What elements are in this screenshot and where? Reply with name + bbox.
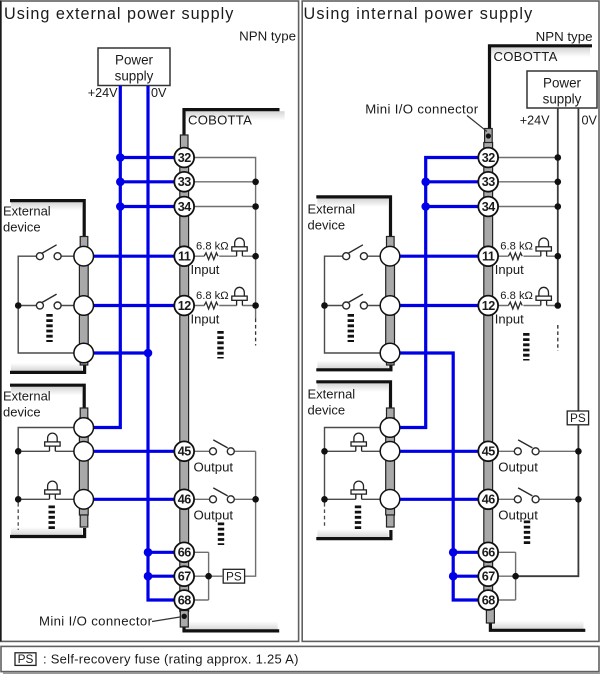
resistor 6.8k row 12 (right) bbox=[508, 302, 522, 309]
terminal 34 (right) bbox=[478, 197, 498, 217]
junction dot +24V/33 bbox=[116, 178, 125, 187]
wire terminal 32 to +24V (right) bbox=[488, 157, 558, 159]
ext2 connector plug bbox=[80, 408, 88, 420]
ext1 pin 3 bbox=[74, 343, 94, 363]
terminal 67 bbox=[174, 566, 194, 586]
power supply box PS2 bbox=[527, 71, 597, 108]
svg-text:34: 34 bbox=[178, 200, 192, 214]
Mini I/O connector bar (right) bbox=[484, 143, 493, 610]
wires terminals 66 67 68 to rail (right) bbox=[488, 552, 515, 600]
ellipsis more switches bbox=[46, 314, 52, 342]
svg-text:PS: PS bbox=[226, 570, 242, 584]
svg-text:68: 68 bbox=[178, 593, 192, 607]
switch contact row 11 bbox=[61, 255, 84, 257]
external device box 2 bottom line bbox=[10, 528, 85, 537]
svg-text:45: 45 bbox=[178, 445, 192, 459]
terminal 33 (right) bbox=[478, 172, 498, 192]
svg-text:supply: supply bbox=[543, 92, 582, 107]
wire ext pinB to terminal 45 bbox=[84, 450, 184, 453]
connector bottom dot bbox=[182, 614, 187, 619]
self-recovery fuse PS box bbox=[223, 569, 244, 583]
svg-text:External: External bbox=[3, 204, 51, 219]
svg-text:32: 32 bbox=[178, 151, 192, 165]
blue wire rail to terminal 34 bbox=[426, 205, 489, 208]
0V feed line lower (right) bbox=[516, 425, 579, 576]
external device box 2 bottom line (right) bbox=[316, 530, 391, 539]
terminal 66 (right) bbox=[478, 542, 498, 562]
svg-text:device: device bbox=[308, 403, 346, 418]
rail continuation dashed bbox=[255, 319, 257, 346]
svg-text:External: External bbox=[308, 387, 356, 402]
ellipsis more loads bbox=[49, 506, 55, 530]
output rail down to PS bbox=[245, 451, 256, 576]
legend PS box bbox=[15, 653, 36, 666]
svg-text:Mini I/O connector: Mini I/O connector bbox=[365, 102, 479, 117]
svg-text:67: 67 bbox=[178, 570, 192, 584]
svg-text:Using external power supply: Using external power supply bbox=[4, 5, 234, 23]
ellipsis more outputs (right) bbox=[524, 521, 530, 545]
legend bar frame bbox=[1, 646, 599, 671]
junction dots +24V 32 33 34 (right) bbox=[555, 154, 562, 161]
terminal 45 (right) bbox=[478, 441, 498, 461]
right panel frame bbox=[302, 1, 599, 641]
junction dot rail/67 bbox=[449, 572, 458, 581]
0V feed line upper (right) bbox=[577, 108, 579, 411]
junction dot pin3/0V bbox=[144, 349, 153, 358]
blue wire rail to terminal 66 bbox=[453, 551, 488, 554]
resistor 6.8k row 11 bbox=[204, 253, 218, 260]
ext1 wiring rail (right) bbox=[325, 256, 391, 353]
junction dot +24V/34 bbox=[116, 202, 125, 211]
external device box 2 top shadow bbox=[11, 387, 82, 396]
svg-text:Input: Input bbox=[191, 262, 220, 277]
load lamp row B (right) bbox=[354, 433, 364, 442]
terminal 46 bbox=[174, 489, 194, 509]
COBOTTA case bottom shadow bbox=[186, 621, 278, 630]
junction dot row 12 (right) bbox=[555, 302, 562, 309]
ext1 connector bar bbox=[79, 248, 88, 358]
junction dot ext1 rail (right) bbox=[321, 302, 328, 309]
svg-text:: Self-recovery fuse (rating a: : Self-recovery fuse (rating approx. 1.2… bbox=[43, 652, 299, 667]
Mini I/O connector plug (right) bbox=[485, 129, 493, 144]
input circuit row 11 (right) bbox=[498, 255, 558, 257]
external device box 1 top line bbox=[10, 201, 84, 237]
ext1 wiring rail bbox=[18, 256, 84, 353]
wire terminal 34 to +24V (right) bbox=[488, 206, 558, 208]
ext2 pins (right) bbox=[380, 418, 400, 438]
wire 0V to terminal 66 bbox=[148, 551, 184, 554]
junction dot rail/67 bbox=[205, 573, 212, 580]
svg-text:Output: Output bbox=[194, 508, 234, 523]
ext2 connector bar (right) bbox=[386, 418, 395, 515]
wire ext pinC to terminal 46 bbox=[84, 498, 184, 501]
connector bottom plug (right) bbox=[486, 609, 494, 624]
svg-text:COBOTTA: COBOTTA bbox=[188, 113, 252, 128]
ext2 connector plug (right) bbox=[387, 408, 395, 420]
svg-text:device: device bbox=[3, 220, 41, 235]
svg-text:Mini I/O connector: Mini I/O connector bbox=[39, 614, 153, 629]
junction dot rail/67 (right) bbox=[512, 573, 519, 580]
svg-text:66: 66 bbox=[178, 546, 192, 560]
svg-text:0V: 0V bbox=[151, 86, 167, 100]
photocoupler LED row 11 bbox=[235, 238, 245, 247]
svg-text:12: 12 bbox=[178, 299, 192, 313]
input circuit row 11 bbox=[194, 255, 256, 257]
svg-text:+24V: +24V bbox=[88, 86, 118, 100]
terminal 11 bbox=[174, 246, 194, 266]
wire terminal 32 to +24V input rail bbox=[184, 158, 256, 319]
photocoupler LED row 12 bbox=[235, 287, 245, 296]
input circuit row 12 bbox=[194, 305, 256, 307]
svg-text:Output: Output bbox=[498, 460, 538, 475]
wire ext pin1 to terminal 11 bbox=[84, 255, 184, 258]
wire ext pin3 to 0V rail bbox=[84, 351, 148, 354]
svg-text:Using internal power supply: Using internal power supply bbox=[304, 5, 534, 23]
photocoupler LED row 11 (right) bbox=[539, 238, 549, 247]
blue wire ext pinB to terminal 45 bbox=[390, 450, 488, 453]
wire 0V to terminal 67 bbox=[148, 575, 184, 578]
ext1 pin 2 bbox=[74, 296, 94, 316]
junction dot rail/34 bbox=[252, 203, 259, 210]
left panel frame bbox=[1, 1, 299, 641]
terminal 67 (right) bbox=[478, 566, 498, 586]
svg-text:External: External bbox=[3, 389, 51, 404]
svg-text:33: 33 bbox=[178, 175, 192, 189]
blue +24V rail from terminal 32 to ext pin A bbox=[390, 158, 488, 428]
ext1 connector plug bottom (right) bbox=[387, 358, 395, 365]
external device box 1 bottom shadow (right) bbox=[317, 361, 388, 370]
junction dot rail/34 bbox=[421, 202, 430, 211]
svg-text:6.8 kΩ: 6.8 kΩ bbox=[500, 290, 533, 302]
ellipsis more outputs bbox=[218, 523, 224, 546]
switch contact row 12 (right) bbox=[367, 305, 390, 307]
legend bar shadow bbox=[3, 673, 600, 674]
junction dot 0V/66 bbox=[144, 548, 153, 557]
svg-text:supply: supply bbox=[115, 69, 154, 84]
output switch row 45 bbox=[194, 450, 256, 452]
ext2 connector bar bbox=[79, 418, 88, 515]
svg-text:device: device bbox=[3, 405, 41, 420]
svg-text:Input: Input bbox=[495, 311, 524, 326]
blue wire rail to terminal 33 bbox=[426, 180, 489, 183]
terminal 32 bbox=[174, 148, 194, 168]
COBOTTA case top shadow bbox=[186, 111, 285, 121]
connector top dot (right) bbox=[486, 133, 491, 138]
junction dot rail/33 bbox=[252, 179, 259, 186]
output switch row 46 (right) bbox=[498, 498, 578, 500]
wire +24V to terminal 34 bbox=[120, 205, 184, 208]
load lamp row B wire bbox=[18, 450, 84, 452]
svg-text:Input: Input bbox=[495, 262, 524, 277]
external device box 1 top shadow bbox=[11, 202, 82, 211]
wire ext pin2 to terminal 12 bbox=[84, 304, 184, 307]
ext1 connector plug bbox=[80, 237, 88, 250]
switch contact row 11 (right) bbox=[367, 255, 390, 257]
photocoupler LED row 12 (right) bbox=[539, 287, 549, 296]
svg-text:11: 11 bbox=[482, 250, 495, 264]
blue wire ext pin2 to terminal 12 bbox=[390, 304, 488, 307]
svg-text:Power: Power bbox=[115, 53, 153, 68]
terminal 34 bbox=[174, 197, 194, 217]
Mini I/O connector plug top bbox=[180, 135, 188, 150]
ellipsis more inputs bbox=[217, 331, 223, 359]
junction dot row 11 (right) bbox=[555, 253, 562, 260]
wire 0V rail (blue) down to terminal 68 bbox=[148, 86, 184, 600]
terminal 68 (right) bbox=[478, 590, 498, 610]
ext2 wiring rail bbox=[18, 428, 84, 504]
ext1 connector plug (right) bbox=[387, 237, 395, 250]
load lamp row C (right) bbox=[354, 481, 364, 490]
ext2 wiring rail (right) bbox=[325, 428, 391, 504]
+24V feed dashed continuation bbox=[557, 325, 559, 351]
ext2 pin B bbox=[74, 442, 94, 462]
svg-text:Output: Output bbox=[194, 460, 234, 475]
switch contact row 12 bbox=[61, 305, 84, 307]
junction dot rail/46 bbox=[252, 496, 259, 503]
Mini I/O connector bar bbox=[180, 150, 189, 612]
load lamp row C wire (right) bbox=[325, 498, 391, 500]
terminal 68 bbox=[174, 590, 194, 610]
COBOTTA case top line (right) bbox=[490, 46, 593, 129]
ellipsis more inputs (right) bbox=[523, 333, 529, 361]
COBOTTA case bottom line bbox=[184, 626, 279, 631]
svg-text:Output: Output bbox=[498, 508, 538, 523]
svg-text:6.8 kΩ: 6.8 kΩ bbox=[196, 241, 229, 253]
junction dot 0V/67 bbox=[144, 572, 153, 581]
terminal 12 (right) bbox=[478, 296, 498, 316]
terminal 45 bbox=[174, 441, 194, 461]
terminal 66 bbox=[174, 542, 194, 562]
svg-text:46: 46 bbox=[482, 493, 496, 507]
COBOTTA case top line bbox=[184, 110, 280, 136]
COBOTTA case top shadow (right) bbox=[491, 47, 590, 57]
blue wire ext pin1 to terminal 11 bbox=[390, 255, 488, 258]
load lamp row B wire (right) bbox=[325, 450, 391, 452]
ellipsis more switches (right) bbox=[348, 314, 354, 342]
external device box 2 top line (right) bbox=[316, 382, 390, 408]
svg-text:NPN type: NPN type bbox=[536, 29, 593, 44]
wire +24V to terminal 32 bbox=[120, 156, 184, 159]
junction dot rail row 12 bbox=[252, 302, 259, 309]
resistor 6.8k row 11 (right) bbox=[508, 253, 522, 260]
input circuit row 12 (right) bbox=[498, 305, 558, 307]
external device box 2 bottom shadow bbox=[11, 527, 82, 536]
wire terminal 34 to rail bbox=[184, 206, 256, 208]
svg-text:12: 12 bbox=[482, 299, 496, 313]
external device box 1 top line (right) bbox=[316, 197, 390, 237]
external device box 1 top shadow (right) bbox=[317, 199, 388, 208]
blue wire rail to terminal 67 bbox=[453, 575, 488, 578]
terminal 11 (right) bbox=[478, 246, 498, 266]
svg-text:66: 66 bbox=[482, 546, 496, 560]
external device box 1 bottom line bbox=[10, 364, 85, 372]
output switch row 46 bbox=[194, 498, 256, 500]
ext1 connector plug bottom bbox=[80, 358, 88, 365]
svg-text:67: 67 bbox=[482, 570, 496, 584]
svg-text:PS: PS bbox=[570, 411, 586, 425]
terminal 33 bbox=[174, 172, 194, 192]
+24V feed line (right) bbox=[557, 108, 559, 306]
ext1 pin 1 bbox=[74, 246, 94, 266]
svg-text:Input: Input bbox=[191, 311, 220, 326]
output switch row 45 (right) bbox=[498, 450, 578, 452]
wire PS to 66-68 rail bbox=[209, 575, 224, 577]
COBOTTA case bottom line (right) bbox=[490, 622, 585, 631]
junction dot +24V/32 bbox=[116, 153, 125, 162]
svg-text:45: 45 bbox=[482, 445, 496, 459]
svg-text:68: 68 bbox=[482, 593, 496, 607]
svg-text:NPN type: NPN type bbox=[239, 29, 296, 44]
wire terminal 33 to rail bbox=[184, 181, 256, 183]
svg-text:34: 34 bbox=[482, 200, 496, 214]
junction dot 0V/46 (right) bbox=[575, 496, 582, 503]
load lamp row B bbox=[48, 433, 58, 442]
connector bottom plug bbox=[180, 611, 188, 628]
junction dot rail/33 bbox=[421, 178, 430, 187]
svg-text:device: device bbox=[308, 218, 346, 233]
svg-text:6.8 kΩ: 6.8 kΩ bbox=[500, 241, 533, 253]
COBOTTA case bottom shadow (right) bbox=[492, 621, 584, 630]
ext1 pins (right) bbox=[380, 246, 400, 266]
svg-text:COBOTTA: COBOTTA bbox=[494, 49, 558, 64]
external device box 2 top line bbox=[10, 385, 84, 408]
wire terminal 33 to +24V (right) bbox=[488, 181, 558, 183]
external device box 1 bottom shadow bbox=[11, 363, 82, 372]
external device box 2 bottom shadow (right) bbox=[317, 529, 388, 538]
svg-text:11: 11 bbox=[178, 250, 191, 264]
junction dot ext1 rail bbox=[15, 302, 22, 309]
terminal 46 (right) bbox=[478, 489, 498, 509]
junction dot rail/66 bbox=[449, 548, 458, 557]
terminal 32 (right) bbox=[478, 148, 498, 168]
svg-text:External: External bbox=[308, 202, 356, 217]
blue wire ext pinC to terminal 46 bbox=[390, 498, 488, 501]
ext2 pin A bbox=[74, 418, 94, 438]
ext2 pin C bbox=[74, 490, 94, 510]
external device box 2 top shadow (right) bbox=[317, 383, 388, 392]
left panel left border accent bbox=[0, 1, 2, 642]
svg-text:32: 32 bbox=[482, 151, 496, 165]
fuse PS box (right) bbox=[567, 411, 588, 425]
wire +24V rail (blue) down to external device pin A bbox=[84, 86, 121, 428]
svg-text:33: 33 bbox=[482, 175, 496, 189]
ext2 connector plug bottom bbox=[80, 515, 88, 527]
ext1 connector bar (right) bbox=[386, 248, 395, 358]
wires terminals 66 67 68 to rail bbox=[184, 552, 209, 600]
wire +24V to terminal 33 bbox=[120, 180, 184, 183]
svg-text:Power: Power bbox=[543, 76, 581, 91]
junction dot rail row 11 bbox=[252, 253, 259, 260]
external device box 1 bottom line (right) bbox=[316, 362, 391, 370]
power supply box PS1 bbox=[98, 48, 170, 86]
terminal 12 bbox=[174, 296, 194, 316]
resistor 6.8k row 12 bbox=[204, 302, 218, 309]
junction dot 0V/45 (right) bbox=[575, 448, 582, 455]
svg-text:46: 46 bbox=[178, 493, 192, 507]
ext2 connector plug bottom (right) bbox=[387, 515, 395, 527]
svg-text:0V: 0V bbox=[582, 114, 598, 128]
svg-text:PS: PS bbox=[18, 652, 34, 666]
load lamp row C wire bbox=[18, 498, 84, 500]
blue 0V return rail pin3 to terminal 68 bbox=[390, 353, 488, 600]
load lamp row C bbox=[48, 481, 58, 490]
ellipsis more loads (right) bbox=[355, 506, 361, 530]
svg-text:6.8 kΩ: 6.8 kΩ bbox=[196, 290, 229, 302]
svg-text:+24V: +24V bbox=[520, 114, 550, 128]
